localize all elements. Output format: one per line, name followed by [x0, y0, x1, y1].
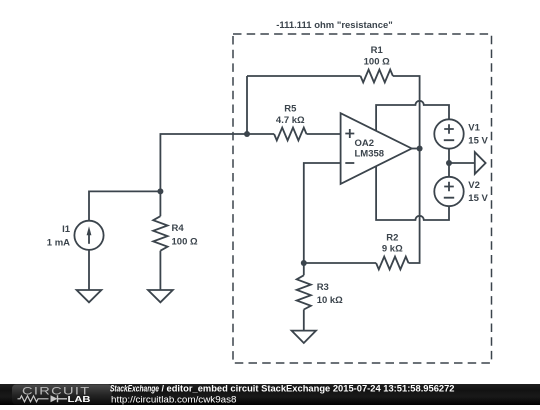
wire node B to R5 — [247, 133, 274, 135]
junction output node dot — [417, 146, 423, 152]
junction V1/V2 node dot — [446, 160, 452, 166]
wire V1 to V2 — [448, 149, 450, 177]
dashed box "resistance" region — [233, 34, 492, 363]
wire V1/V2 node to flag — [449, 162, 475, 164]
svg-text:-111.111 ohm "resistance": -111.111 ohm "resistance" — [276, 20, 393, 31]
svg-text:OA2: OA2 — [355, 138, 375, 149]
svg-text:R2: R2 — [386, 232, 398, 243]
svg-text:9 kΩ: 9 kΩ — [382, 243, 403, 254]
svg-text:15 V: 15 V — [468, 193, 488, 204]
svg-text:LM358: LM358 — [355, 149, 385, 160]
wire R3 node to R2 — [304, 262, 376, 264]
svg-text:15 V: 15 V — [468, 136, 488, 147]
voltage source V1 plus minus — [444, 124, 454, 140]
resistor R2 — [376, 257, 408, 270]
wire output node down to R2 — [409, 149, 420, 264]
wire I1 top to node A — [89, 191, 160, 220]
ground under I1 — [77, 290, 102, 302]
wire R4 bottom to ground — [159, 251, 161, 290]
wire bottom supply rail with hop — [376, 166, 449, 220]
wire I1 bottom to ground — [88, 250, 90, 290]
wire top supply rail with hop — [376, 101, 449, 131]
junction node B dot — [244, 131, 250, 137]
svg-text:10 kΩ: 10 kΩ — [317, 295, 343, 306]
svg-text:LAB: LAB — [68, 394, 91, 404]
svg-text:R1: R1 — [371, 45, 384, 56]
wire node A down to R4 — [159, 191, 161, 216]
wire R5 to op-amp + input — [307, 133, 341, 135]
resistor R3 — [297, 275, 311, 309]
op-amp OA2 triangle — [341, 113, 412, 184]
logo plate — [12, 385, 112, 405]
logo resistor squiggle — [18, 396, 49, 402]
svg-text:R3: R3 — [317, 282, 329, 293]
wire R1 right lead down to output node — [393, 76, 420, 149]
op-amp + input symbol — [345, 129, 354, 138]
wire R1 left leg down to node B — [246, 76, 248, 134]
svg-text:100 Ω: 100 Ω — [364, 56, 390, 67]
resistor R5 — [274, 128, 306, 141]
svg-text:StackExchange / editor_embed c: StackExchange / editor_embed circuit Sta… — [110, 384, 455, 394]
logo diode — [51, 395, 58, 402]
wire R3 node down to R3 — [303, 263, 305, 275]
junction R3 node dot — [301, 260, 307, 266]
voltage source V1 circle — [434, 119, 463, 148]
voltage source V2 plus minus — [444, 182, 454, 198]
svg-text:http://circuitlab.com/cwk9as8: http://circuitlab.com/cwk9as8 — [111, 394, 237, 404]
svg-text:R5: R5 — [284, 104, 297, 115]
junction node A dot — [157, 188, 163, 194]
output flag — [475, 152, 486, 174]
wire node A up and right to node B — [160, 134, 247, 191]
svg-text:I1: I1 — [62, 224, 71, 235]
ground under R3 — [292, 331, 316, 343]
svg-text:4.7 kΩ: 4.7 kΩ — [276, 115, 305, 126]
svg-text:V2: V2 — [468, 180, 480, 191]
wire R1 left lead — [247, 75, 361, 77]
wire op-amp - input to R3 node — [304, 163, 341, 263]
voltage source V2 circle — [434, 177, 463, 206]
svg-text:1 mA: 1 mA — [47, 237, 70, 248]
current source I1 arrow — [88, 234, 90, 244]
svg-text:V1: V1 — [468, 123, 480, 134]
resistor R1 — [361, 70, 393, 83]
wire op-amp output to node — [412, 148, 420, 150]
svg-text:R4: R4 — [172, 223, 185, 234]
wire R3 to ground — [303, 310, 305, 331]
ground under R4 — [148, 290, 173, 302]
current source I1 circle — [74, 221, 103, 250]
resistor R4 — [153, 216, 167, 251]
svg-text:100 Ω: 100 Ω — [172, 236, 198, 247]
op-amp - input symbol — [345, 162, 354, 164]
